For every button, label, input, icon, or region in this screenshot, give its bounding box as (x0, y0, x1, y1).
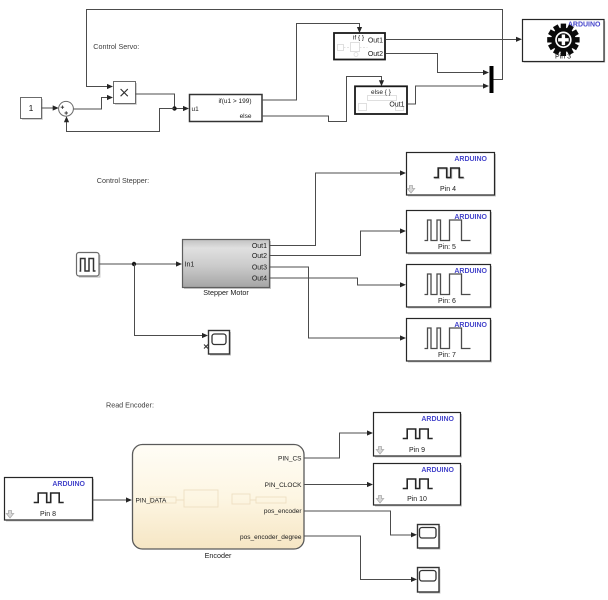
wire feedback to sum bottom (64, 109, 175, 132)
stepper motor subsystem (183, 240, 272, 297)
svg-text:Read Encoder:: Read Encoder: (106, 401, 154, 410)
arduino Pin 5 block (407, 211, 493, 255)
svg-text:Out4: Out4 (252, 276, 267, 283)
wire if else output to else-action subsystem (262, 77, 384, 122)
multiply block (114, 82, 137, 105)
svg-text:Control Servo:: Control Servo: (93, 42, 139, 51)
wire Pin8 to encoder PIN_DATA (93, 497, 133, 502)
svg-text:ARDUINO: ARDUINO (52, 481, 85, 488)
arduino Pin 3 block (523, 20, 606, 63)
svg-text:Pin: 6: Pin: 6 (438, 298, 456, 305)
wire if out1 up to if-action subsystem (262, 24, 362, 101)
encoder subsystem (133, 445, 305, 561)
svg-text:Out2: Out2 (368, 51, 383, 58)
wire merge output feedback to multiply in1 (87, 10, 503, 90)
svg-text:Encoder: Encoder (205, 551, 232, 560)
wire else-action Out1 to merge in2 (408, 83, 490, 104)
arduino Pin 10 block (374, 464, 463, 507)
svg-text:Pin 10: Pin 10 (407, 496, 427, 503)
wire stepper Out4 to Pin6 (270, 278, 407, 287)
wire pulse gen to stepper In1 (100, 261, 183, 266)
svg-text:ARDUINO: ARDUINO (421, 416, 454, 423)
wire constant to sum (42, 105, 59, 110)
svg-text:if { }: if { } (353, 35, 365, 42)
svg-text:PIN_CLOCK: PIN_CLOCK (265, 482, 303, 489)
svg-text:Out1: Out1 (252, 243, 267, 250)
wire junction to scope (135, 264, 209, 338)
svg-text:1: 1 (29, 103, 34, 113)
pulse generator block (77, 253, 100, 278)
junction dot pulse branch (132, 262, 136, 266)
constant C1 value 1 (21, 98, 43, 120)
svg-text:Out2: Out2 (252, 253, 267, 260)
wire if-action Out2 to merge in1 (386, 53, 490, 75)
wire encoder PIN_CS to Pin9 (305, 430, 374, 458)
svg-text:Pin: 5: Pin: 5 (438, 244, 456, 251)
wire multiply out to if input (136, 94, 190, 111)
wire stepper Out3 to Pin7 (270, 267, 407, 341)
arduino Pin 6 block (407, 265, 493, 309)
wire stepper Out1 to Pin4 (270, 170, 407, 245)
arduino Pin 8 block (5, 478, 95, 522)
svg-text:Pin 4: Pin 4 (440, 186, 456, 193)
svg-text:PIN_CS: PIN_CS (278, 456, 302, 463)
svg-text:ARDUINO: ARDUINO (421, 467, 454, 474)
svg-text:ARDUINO: ARDUINO (454, 156, 487, 163)
svg-text:Pin 8: Pin 8 (40, 511, 56, 518)
svg-text:pos_encoder: pos_encoder (264, 508, 302, 515)
scope block 3 (418, 525, 440, 550)
svg-text:Control Stepper:: Control Stepper: (97, 176, 149, 185)
sum block (59, 101, 74, 116)
gear icon (547, 24, 579, 56)
junction dot at if input branch (172, 106, 176, 110)
wire sum out to multiply in2 (73, 95, 113, 109)
if-action subsystem 1 (334, 33, 385, 60)
wire encoder pos_encoder to scope3 (305, 511, 418, 538)
svg-text:Out3: Out3 (252, 265, 267, 272)
svg-text:Pin: 7: Pin: 7 (438, 352, 456, 359)
arduino Pin 4 block (407, 153, 497, 197)
svg-text:Stepper Motor: Stepper Motor (203, 288, 249, 297)
scope block 4 (418, 568, 440, 594)
svg-text:else { }: else { } (371, 89, 392, 96)
merge block (490, 66, 494, 93)
if block if(u1>199) (190, 95, 263, 122)
wire stepper Out2 to Pin5 (270, 228, 407, 255)
wire encoder PIN_CLOCK to Pin10 (305, 482, 374, 487)
svg-text:In1: In1 (185, 261, 195, 268)
wire encoder pos_encoder_degree to scope4 (305, 536, 418, 582)
arduino Pin 7 block (407, 319, 493, 363)
svg-text:Out1: Out1 (368, 38, 383, 45)
svg-text:PIN_DATA: PIN_DATA (136, 498, 167, 505)
svg-text:else: else (240, 113, 252, 120)
svg-text:if(u1 > 199): if(u1 > 199) (218, 98, 251, 105)
wire if-action Out1 to Pin3 (386, 37, 523, 42)
svg-text:u1: u1 (192, 106, 200, 113)
svg-text:Pin 9: Pin 9 (409, 447, 425, 454)
svg-text:pos_encoder_degree: pos_encoder_degree (240, 534, 302, 541)
svg-text:Out1: Out1 (389, 102, 404, 109)
svg-text:Pin 3: Pin 3 (555, 54, 571, 61)
scope block 1 (204, 331, 230, 356)
else-action subsystem (355, 86, 407, 114)
arduino Pin 9 block (374, 413, 463, 458)
